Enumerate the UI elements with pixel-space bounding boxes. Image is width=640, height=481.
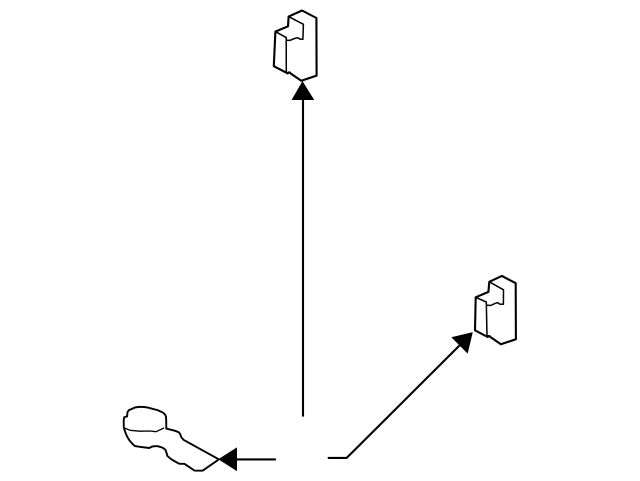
arrow to lower-left pad: arrowhead [219, 448, 237, 471]
top clip: notch bottom wavy edge [287, 38, 303, 41]
lower-left pad: inner crease line [124, 428, 164, 432]
part: top clip block outline [274, 11, 317, 81]
top clip: step ledge edges [275, 26, 288, 37]
right clip: notch top edge [489, 282, 503, 304]
arrow to right clip: arrowhead [452, 333, 473, 354]
arrow to lower-left pad: horizontal leader line [236, 458, 275, 460]
arrow to top clip: vertical leader line [302, 100, 304, 416]
right clip: middle vertical edge [485, 302, 488, 336]
part: right clip block outline [475, 276, 516, 344]
arrow to top clip: arrowhead [292, 82, 314, 100]
arrow to right clip: diagonal leader line with tail [329, 344, 461, 458]
top clip: middle vertical edge [285, 38, 287, 72]
right clip: notch bottom wavy edge [488, 303, 504, 306]
top clip: notch top edge [289, 17, 304, 39]
right clip: step ledge edges [476, 292, 489, 302]
part: lower-left pad outline [124, 407, 219, 471]
